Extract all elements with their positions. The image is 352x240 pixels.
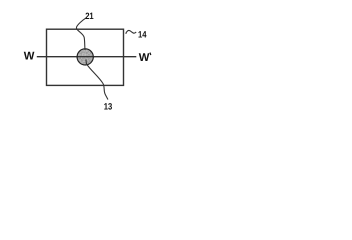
label W' prime tick [149, 53, 152, 56]
rectangle 14 (outline) [47, 29, 124, 85]
leader line to 21 [76, 18, 86, 50]
circle 21 outline [77, 49, 93, 65]
leader squiggle for 14 [126, 30, 136, 33]
circle 21 (stippled fill) [75, 47, 96, 68]
wire: section line through circle [76, 56, 95, 58]
svg-text:13: 13 [104, 102, 113, 112]
leader line to 13 [86, 60, 108, 100]
svg-text:14: 14 [138, 29, 147, 39]
svg-text:W: W [24, 51, 35, 63]
svg-text:21: 21 [85, 11, 94, 21]
wire: section line W-W' horizontal [37, 56, 137, 58]
svg-text:W: W [139, 52, 150, 64]
